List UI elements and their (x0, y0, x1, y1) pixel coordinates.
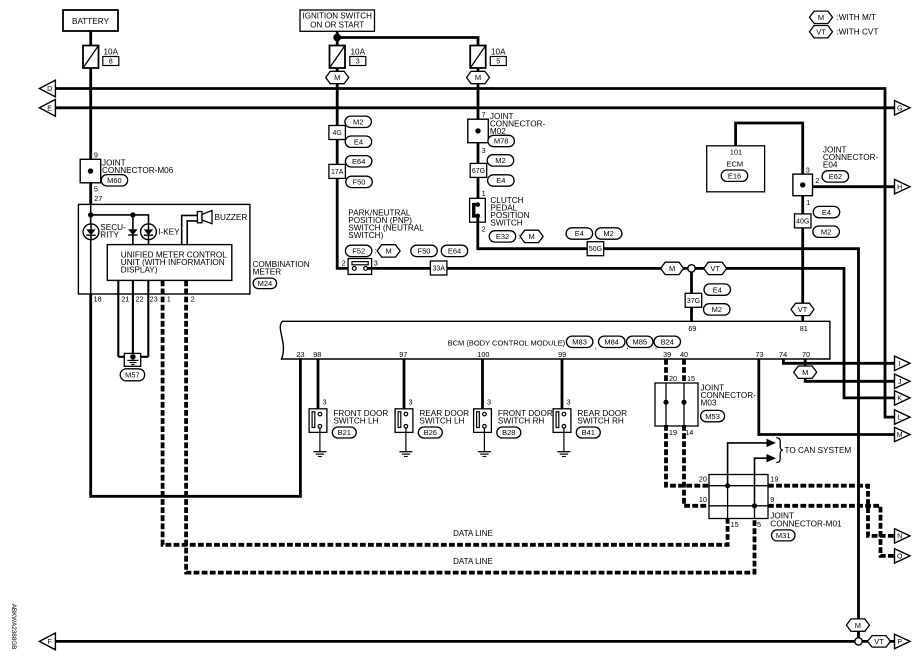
svg-text:M2: M2 (821, 227, 831, 236)
svg-text:E64: E64 (448, 247, 461, 256)
svg-text:DATA LINE: DATA LINE (453, 529, 493, 538)
clutch pedal position switch (470, 198, 486, 222)
i-key LED (141, 224, 157, 240)
svg-text:DATA LINE: DATA LINE (453, 557, 493, 566)
wire PNP output to K arrow (via 33A, M/VT hexagons) (368, 268, 895, 398)
svg-text:3: 3 (374, 258, 378, 267)
svg-text:M: M (669, 264, 675, 273)
wire M01 pin 5 inside box (754, 506, 756, 519)
page connector arrow F (39, 633, 55, 650)
page connector arrow M (895, 427, 911, 441)
wire door switch B21 to ground (319, 432, 321, 451)
wire BCM to door switch B28 (481, 359, 484, 413)
wire junction to BCM pin 69 via 37G (690, 268, 693, 321)
page connector arrow G (895, 101, 911, 115)
inline box 37G (685, 293, 702, 307)
connector oval E4 (40G) (813, 206, 840, 217)
svg-text:17A: 17A (331, 169, 344, 176)
svg-text:B21: B21 (338, 428, 351, 437)
door switch B41 (553, 409, 571, 433)
svg-text:5: 5 (757, 520, 761, 529)
svg-text:81: 81 (800, 324, 808, 333)
inline box 17A (329, 164, 346, 178)
svg-text:37G: 37G (687, 298, 700, 305)
battery B1 (63, 10, 118, 31)
label DATA LINE 2 (447, 556, 499, 566)
legend hexagon VT (810, 26, 833, 38)
connector oval E4 (4G) (345, 136, 372, 147)
svg-text:M2: M2 (603, 229, 613, 238)
svg-text:SWITCH LH: SWITCH LH (333, 417, 378, 426)
wire door switch B28 to ground (483, 432, 485, 451)
wire M06 to combination meter pin 27 (89, 183, 92, 205)
connector oval E4 (50G) (566, 228, 593, 239)
page connector arrow I (895, 356, 911, 370)
svg-text:E04: E04 (823, 161, 838, 170)
wire LED feed rail (91, 215, 149, 224)
ground door switch B28 (478, 451, 491, 453)
svg-text:P: P (897, 639, 902, 646)
connector oval M31 (772, 530, 796, 541)
svg-text:J: J (898, 379, 902, 386)
connector oval E16 (721, 170, 748, 181)
label fuse number 5 (490, 57, 506, 66)
wire BCM pin 73 to M arrow (759, 359, 895, 435)
svg-text:3: 3 (482, 146, 486, 155)
svg-text:M: M (475, 73, 481, 82)
connector oval E32 (489, 231, 516, 242)
svg-text:3: 3 (567, 398, 571, 407)
svg-text:33A: 33A (432, 266, 445, 273)
svg-text:E62: E62 (829, 172, 842, 181)
page connector arrow L (895, 410, 911, 424)
connector oval F50 (17A) (346, 176, 373, 187)
svg-text:M31: M31 (776, 531, 791, 540)
svg-text:E4: E4 (354, 137, 363, 146)
svg-text:BATTERY: BATTERY (72, 17, 110, 26)
wire M01 pin 19 to N arrow (dashed) (768, 486, 895, 536)
door switch B28 (474, 409, 492, 433)
connector oval M2 (67G) (487, 155, 514, 166)
hexagon tag M (pin 70) (794, 366, 817, 378)
svg-text:15: 15 (731, 520, 739, 529)
wire BCM pin 40 to M03 (dashed) (682, 359, 686, 384)
svg-text:M02: M02 (490, 127, 506, 136)
svg-text:F50: F50 (353, 178, 366, 187)
svg-text:3: 3 (806, 165, 810, 174)
hexagon tag M below fuse 3 (326, 71, 349, 83)
inline box 67G (470, 163, 487, 177)
page connector arrow J (895, 374, 911, 388)
page connector arrow N (895, 529, 911, 543)
hexagon tag M (PNP) (377, 245, 400, 257)
svg-text:40G: 40G (796, 218, 809, 225)
svg-text:3: 3 (323, 398, 327, 407)
combination meter box (78, 204, 250, 294)
svg-text:10A: 10A (351, 48, 366, 57)
connector oval M2 (50G) (595, 228, 622, 239)
connector oval B21 (332, 427, 356, 438)
wire meter pin 1 to data line 1 (dashed) (163, 280, 728, 544)
connector oval M57 (120, 369, 145, 381)
svg-text:I: I (899, 361, 901, 368)
connector oval M53 (701, 410, 725, 421)
svg-text:3: 3 (356, 57, 360, 66)
hexagon tag M (PNP line) (661, 262, 684, 274)
svg-text:21: 21 (121, 295, 129, 304)
hexagon tag M below fuse 5 (467, 71, 490, 83)
connector oval F52 (345, 245, 372, 256)
svg-text:K: K (897, 396, 902, 403)
svg-text:10: 10 (699, 495, 707, 504)
svg-text:2: 2 (191, 295, 195, 304)
svg-text:SWITCH: SWITCH (490, 218, 522, 227)
label DATA LINE 1 (447, 528, 499, 538)
svg-text:L: L (898, 415, 902, 422)
wire M01 internal 20-19 (709, 485, 768, 487)
wire M01 internal 10-9 (709, 505, 768, 507)
svg-text:18: 18 (94, 295, 102, 304)
wire security LED to meter pin 18 (90, 240, 92, 294)
wire BCM to door switch B41 (561, 359, 564, 413)
wire M03 pin 14 to M01 pin 10 (dashed) (684, 425, 710, 506)
svg-text:E4: E4 (575, 229, 584, 238)
connector oval B26 (418, 427, 442, 438)
connector oval E64 (17A) (345, 156, 372, 167)
svg-text:M: M (818, 13, 824, 22)
svg-text:ABKWA2388GB: ABKWA2388GB (10, 604, 17, 650)
svg-text:H: H (897, 184, 902, 191)
connector oval E4 (37G) (704, 284, 731, 295)
svg-text:1: 1 (482, 189, 486, 198)
svg-text:M: M (385, 247, 391, 256)
svg-text:,: , (595, 342, 597, 351)
wire M03 internal 20-19 (665, 383, 667, 426)
ground door switch B21 (313, 451, 326, 453)
wire M01 pin 15 inside box (727, 486, 729, 519)
svg-text:23: 23 (296, 350, 304, 359)
svg-text:VT: VT (874, 637, 884, 646)
svg-text:E4: E4 (496, 176, 505, 185)
hexagon tag M (bottom) (846, 619, 869, 631)
svg-text:M2: M2 (712, 305, 722, 314)
junction circle (M/VT split) (688, 265, 695, 272)
joint connector M06 (80, 159, 101, 183)
svg-text:ON OR START: ON OR START (310, 21, 364, 30)
connector oval M78 (488, 135, 515, 146)
svg-text:2: 2 (815, 176, 819, 185)
svg-text:5: 5 (496, 57, 500, 66)
connector oval M60 (101, 175, 128, 186)
wire meter pin 21 to ground (117, 280, 119, 356)
wire BCM pin 39 to M03 (dashed) (664, 359, 668, 384)
hexagon tag VT (PNP line) (704, 262, 727, 274)
svg-text:ECM: ECM (726, 160, 743, 169)
svg-text:M2: M2 (495, 156, 505, 165)
svg-text:D: D (47, 86, 52, 93)
svg-text:SWITCH RH: SWITCH RH (498, 417, 544, 426)
buzzer (197, 212, 202, 223)
junction dot M01 pin 9-5 (752, 503, 757, 508)
wire E04 pin 1 to BCM pin 81 via 40G (801, 196, 804, 321)
svg-text:METER: METER (253, 267, 282, 276)
svg-text:M: M (334, 73, 340, 82)
connector oval M2 (37G) (704, 304, 731, 315)
wire BCM pin 74 to I arrow (783, 359, 894, 363)
svg-text:99: 99 (558, 350, 566, 359)
wire M03 pin 19 to M01 pin 20 (dashed) (666, 425, 710, 486)
svg-text:TO CAN SYSTEM: TO CAN SYSTEM (785, 446, 852, 455)
inline box 33A (430, 261, 447, 275)
connector oval E62 (822, 171, 849, 182)
svg-text:B24: B24 (661, 338, 674, 347)
svg-text:M78: M78 (494, 137, 509, 146)
svg-text:VT: VT (798, 305, 808, 314)
wire clutch switch to bottom bus (via 50G, down right side) (478, 216, 859, 642)
connector oval M85 (627, 336, 654, 347)
svg-text:E32: E32 (496, 232, 509, 241)
svg-text:DISPLAY): DISPLAY) (121, 266, 158, 275)
svg-text:E4: E4 (822, 208, 831, 217)
svg-text:B26: B26 (424, 428, 437, 437)
svg-text:20: 20 (669, 374, 677, 383)
svg-text:M: M (897, 432, 903, 439)
CAN arrowhead 1 (767, 439, 777, 447)
svg-text:100: 100 (477, 350, 489, 359)
wire fuse 8 to joint connector M06 (89, 68, 92, 160)
svg-text:39: 39 (663, 350, 671, 359)
svg-text:F: F (47, 639, 51, 646)
svg-text:M57: M57 (125, 371, 140, 380)
svg-text:SWITCH RH: SWITCH RH (577, 417, 623, 426)
wire ECM pin 101 to joint connector E04 (736, 123, 803, 174)
svg-text:BCM (BODY CONTROL MODULE): BCM (BODY CONTROL MODULE) (448, 339, 566, 348)
inline box 50G (587, 242, 604, 256)
svg-text:9: 9 (770, 495, 774, 504)
ECM box (707, 146, 765, 192)
svg-text:M83: M83 (572, 338, 587, 347)
legend hexagon M (810, 11, 833, 23)
svg-text:9: 9 (94, 150, 98, 159)
svg-text:4G: 4G (333, 130, 342, 137)
wire bus line E (battery feed) to G arrow (55, 106, 894, 109)
wire BCM to door switch B26 (403, 359, 406, 413)
svg-text:70: 70 (802, 350, 810, 359)
svg-text:O: O (897, 554, 903, 561)
svg-text:20: 20 (699, 475, 707, 484)
svg-text:F50: F50 (418, 247, 431, 256)
joint connector M03 box (655, 383, 698, 426)
svg-text:101: 101 (730, 148, 742, 157)
svg-text:5: 5 (94, 184, 98, 193)
svg-text:E64: E64 (352, 157, 365, 166)
junction dot M01 pin 20-15 (725, 483, 730, 488)
svg-text:E4: E4 (713, 285, 722, 294)
fuse 3 10A (330, 46, 346, 69)
wire M03 internal 15-14 (683, 383, 685, 426)
wire meter pin 18 to BCM pin 23 (91, 294, 301, 496)
junction dot ignition branch (333, 34, 341, 42)
wire CAN branch 1 to arrow (728, 443, 767, 486)
svg-text:CONNECTOR-M06: CONNECTOR-M06 (102, 166, 174, 175)
svg-text:27: 27 (94, 194, 102, 203)
svg-text:10A: 10A (104, 48, 119, 57)
svg-text:M53: M53 (705, 412, 720, 421)
page connector arrow D (39, 80, 55, 97)
svg-text:98: 98 (313, 350, 321, 359)
wire BCM to door switch B21 (317, 359, 320, 413)
wire M01 pin 9 to O arrow (dashed) (768, 506, 895, 556)
wire door switch B41 to ground (563, 432, 565, 451)
wire BCM pin 70 to J arrow (805, 359, 894, 381)
svg-text:69: 69 (688, 324, 696, 333)
inline box 40G (795, 214, 812, 228)
hexagon tag VT (40G line) (791, 303, 814, 315)
page connector arrow E (39, 99, 55, 116)
connector oval M2 (40G) (813, 226, 840, 237)
svg-text:3: 3 (487, 398, 491, 407)
junction dot M03 pin 20 (663, 400, 668, 405)
hexagon tag M (clutch) (520, 230, 543, 242)
svg-text:14: 14 (685, 428, 693, 437)
wire CAN branch 2 to arrow (755, 458, 767, 506)
svg-text:1: 1 (167, 295, 171, 304)
svg-text:VT: VT (816, 27, 826, 36)
wire branch to fuse 5 (337, 38, 478, 46)
label fuse number 3 (350, 57, 366, 66)
label fuse number 8 (103, 57, 119, 66)
wire battery to fuse 8 (89, 31, 92, 46)
svg-text:1: 1 (806, 198, 810, 207)
page connector arrow O (895, 549, 911, 563)
ground door switch B41 (557, 451, 570, 453)
joint connector M02 (468, 119, 489, 143)
wire E04 pin 2 to H arrow (813, 185, 895, 188)
wire bottom bus line F to P (55, 640, 894, 643)
door switch B26 (395, 409, 413, 433)
ground door switch B26 (399, 451, 412, 453)
wire fuse 5 down to clutch pedal position switch (477, 68, 480, 205)
wire bus line D (battery feed) with corner down to L arrow (55, 89, 894, 418)
svg-text:VT: VT (710, 264, 720, 273)
page connector arrow P (895, 634, 911, 648)
svg-text:M: M (802, 368, 808, 377)
brace TO CAN SYSTEM (776, 438, 783, 463)
inline box 4G (329, 126, 346, 140)
connector oval M24 (253, 278, 277, 289)
svg-text:50G: 50G (589, 246, 602, 253)
svg-text:M84: M84 (604, 338, 619, 347)
joint connector M01 box (709, 475, 768, 519)
svg-text:RITY: RITY (100, 231, 119, 240)
junction circle bottom bus (855, 638, 862, 645)
BCM box (280, 321, 830, 359)
ground M57 (124, 353, 140, 366)
wire ground bracket M57 (118, 356, 148, 358)
page connector arrow H (895, 180, 911, 194)
wire fuse 3 down through buses to PNP switch (337, 68, 352, 268)
svg-text:I-KEY: I-KEY (158, 228, 180, 237)
junction dot i-key LED (130, 212, 135, 217)
svg-text::: : (374, 247, 376, 256)
wire meter pin 22 to ground (132, 280, 134, 356)
svg-text:F52: F52 (352, 247, 365, 256)
connector oval M84 (599, 336, 626, 347)
svg-text::WITH CVT: :WITH CVT (837, 27, 879, 36)
connector oval F50 (33A) (411, 245, 438, 256)
page connector arrow K (895, 391, 911, 405)
joint connector E04 (793, 174, 813, 196)
wire meter pin 27 to security LED (90, 204, 92, 224)
svg-text:E16: E16 (728, 171, 741, 180)
svg-text::WITH M/T: :WITH M/T (837, 13, 877, 22)
connector oval M83 (566, 336, 593, 347)
buzzer wires (182, 215, 198, 244)
PNP switch symbol F52 (348, 259, 372, 275)
ignition switch (300, 10, 375, 31)
wire meter pin 23 to ground (147, 280, 149, 356)
svg-text:2: 2 (342, 258, 346, 267)
svg-text:10A: 10A (491, 48, 506, 57)
hexagon tag VT (bottom) (868, 636, 891, 648)
svg-text:M: M (528, 232, 534, 241)
connector oval M2 (4G) (345, 116, 372, 127)
svg-text:7: 7 (482, 110, 486, 119)
fuse 8 10A (83, 46, 99, 69)
junction dot security LED (88, 212, 93, 217)
svg-text:2: 2 (482, 225, 486, 234)
svg-text:40: 40 (680, 350, 688, 359)
wire i-key LED to control unit (148, 240, 150, 245)
svg-text:97: 97 (399, 350, 407, 359)
svg-text:M: M (855, 621, 861, 630)
svg-text:E: E (47, 106, 52, 113)
fuse 5 10A (470, 46, 486, 69)
wire door switch B26 to ground (405, 432, 407, 451)
svg-text:19: 19 (669, 428, 677, 437)
middle diode (132, 215, 134, 229)
svg-text:N: N (897, 534, 902, 541)
svg-text:67G: 67G (472, 168, 485, 175)
svg-text:M2: M2 (353, 118, 363, 127)
svg-text:22: 22 (136, 295, 144, 304)
svg-text:M85: M85 (633, 338, 648, 347)
svg-text:M24: M24 (258, 279, 273, 288)
connector oval E64 (33A) (441, 245, 468, 256)
svg-text:73: 73 (755, 350, 763, 359)
svg-text:3: 3 (409, 398, 413, 407)
svg-text:SWITCH): SWITCH) (348, 231, 383, 240)
svg-text:8: 8 (109, 57, 113, 66)
svg-text:M60: M60 (107, 176, 122, 185)
svg-text:SWITCH LH: SWITCH LH (419, 417, 464, 426)
svg-text:CONNECTOR-M01: CONNECTOR-M01 (770, 520, 842, 529)
svg-text:M03: M03 (701, 398, 717, 407)
connector oval B41 (576, 427, 600, 438)
svg-text:B28: B28 (502, 428, 515, 437)
svg-text:19: 19 (770, 475, 778, 484)
svg-text:15: 15 (687, 374, 695, 383)
svg-text:G: G (897, 105, 902, 112)
svg-text:BUZZER: BUZZER (215, 213, 248, 222)
junction dot M03 pin 15 (681, 400, 686, 405)
connector oval B28 (497, 427, 521, 438)
wire meter pin 2 to data line 2 (dashed) (186, 280, 754, 572)
svg-text:IGNITION SWITCH: IGNITION SWITCH (303, 12, 373, 21)
security LED (83, 224, 99, 240)
wire ignition switch to fuse 3 (336, 31, 339, 45)
door switch B21 (309, 409, 327, 433)
